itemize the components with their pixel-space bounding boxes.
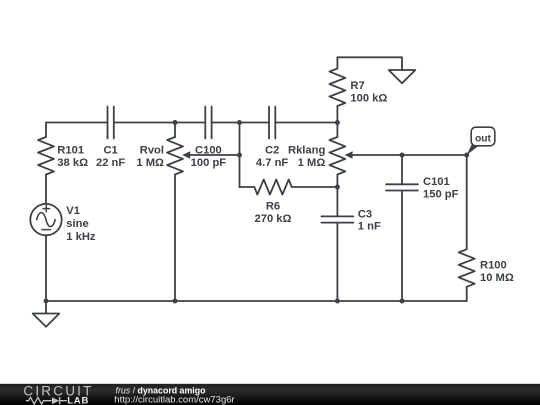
ground bottom left (33, 314, 60, 327)
svg-text:C100: C100 (195, 144, 222, 156)
label C101 value (423, 176, 459, 200)
svg-text:R6: R6 (266, 200, 280, 212)
svg-text:C101: C101 (423, 176, 450, 188)
wire R7 top to ground (337, 57, 402, 70)
wire R7 top lead (336, 57, 338, 68)
wiper arrow Rvol (182, 151, 190, 158)
wire bottom rail (46, 300, 467, 302)
svg-text:38 kΩ: 38 kΩ (57, 157, 88, 169)
svg-text:http://circuitlab.com/cw73g6r: http://circuitlab.com/cw73g6r (114, 395, 234, 405)
wire ground stub bottom left (45, 301, 47, 314)
wire C101 bottom to bottom rail (401, 191, 403, 302)
wire Rklang wiper rail to out (352, 154, 466, 156)
junction Rvol bottom rail (173, 299, 178, 304)
wire Rvol bottom to bottom rail (174, 175, 176, 302)
svg-text:1 kHz: 1 kHz (66, 231, 96, 243)
svg-text:Rvol: Rvol (140, 145, 164, 157)
svg-text:Rklang: Rklang (288, 145, 325, 157)
svg-text:100 kΩ: 100 kΩ (350, 92, 387, 104)
junction C101 top (400, 153, 405, 158)
svg-text:sine: sine (66, 218, 88, 230)
wire V1 to bottom rail (45, 235, 47, 301)
footer bar (0, 384, 540, 405)
junction Rklang top (335, 120, 340, 125)
label V1 value (66, 205, 96, 243)
label R101 value (57, 145, 88, 169)
junction C3 bottom rail (335, 299, 340, 304)
wire C3 bottom to bottom rail (336, 223, 338, 301)
capacitor C3 (321, 216, 353, 222)
svg-text:1 MΩ: 1 MΩ (136, 157, 164, 169)
svg-text:R7: R7 (350, 80, 364, 92)
svg-text:10 MΩ: 10 MΩ (480, 272, 514, 284)
junction C100 right top (237, 120, 242, 125)
junction Rvol top (173, 120, 178, 125)
node out flag (467, 127, 495, 155)
capacitor C101 (386, 184, 418, 190)
svg-text:R100: R100 (480, 260, 507, 272)
source V1 (30, 204, 61, 235)
label Rvol value (136, 145, 164, 169)
potentiometer Rvol (167, 137, 183, 175)
wire Rvol wiper to node (190, 154, 240, 156)
wire out node down to R100 (466, 155, 468, 249)
wire R101 to V1 (45, 175, 47, 205)
svg-text:LAB: LAB (67, 395, 89, 405)
svg-text:150 pF: 150 pF (423, 188, 459, 200)
wire top rail segment 3 (C100 to C2) (212, 122, 269, 124)
junction out node (464, 153, 469, 158)
svg-text:100 pF: 100 pF (191, 157, 227, 169)
label C100 value (191, 144, 227, 169)
potentiometer Rklang (329, 137, 345, 175)
label R6 value (255, 200, 292, 224)
svg-text:C2: C2 (265, 145, 279, 157)
svg-text:R101: R101 (57, 145, 84, 157)
wire C101 top lead (401, 155, 403, 184)
label Rklang value (288, 145, 325, 169)
wire Rklang bottom to C3 (336, 175, 338, 217)
footer logo CIRCUIT LAB (23, 384, 93, 405)
wire vertical C100 right node (239, 123, 241, 188)
wire node to R6 left (240, 186, 255, 188)
label C3 value (358, 208, 381, 232)
wire top rail segment 2 (C1 to C100 via Rvol top) (114, 122, 206, 124)
capacitor C1 (108, 107, 114, 139)
wire left rail top (node A down to R101) (45, 123, 47, 138)
svg-text:out: out (475, 133, 491, 144)
svg-text:1 nF: 1 nF (358, 221, 381, 233)
svg-text:V1: V1 (66, 205, 80, 217)
junction Rklang bottom R6 (335, 185, 340, 190)
footer title text (114, 385, 234, 405)
junction C101 bottom rail (400, 299, 405, 304)
wiper arrow Rklang (345, 151, 353, 158)
wire R6 right to Rklang bottom (292, 186, 338, 188)
svg-text:C1: C1 (103, 145, 117, 157)
junction bottom left (44, 299, 49, 304)
label C2 value (256, 145, 288, 169)
label R100 value (480, 260, 514, 284)
junction wiper node (237, 153, 242, 158)
label R7 value (350, 80, 387, 104)
capacitor C100 (205, 107, 211, 139)
svg-text:4.7 nF: 4.7 nF (256, 157, 288, 169)
svg-text:1 MΩ: 1 MΩ (298, 157, 326, 169)
ground top right (389, 70, 416, 83)
label C1 value (96, 145, 125, 169)
svg-text:C3: C3 (358, 208, 372, 220)
resistor R6 (254, 180, 291, 195)
resistor R7 (329, 69, 345, 107)
svg-text:270 kΩ: 270 kΩ (255, 213, 292, 225)
wire R7 bottom to Rklang top (336, 106, 338, 137)
wire Rvol top lead (174, 123, 176, 138)
wire R100 bottom to bottom rail (466, 287, 468, 301)
resistor R100 (459, 249, 475, 286)
wire top rail segment 1 (node A to C1) (46, 122, 108, 124)
resistor R101 (38, 137, 54, 175)
svg-text:22 nF: 22 nF (96, 157, 125, 169)
capacitor C2 (269, 107, 275, 139)
wire top rail segment 4 (C2 to Rklang top) (275, 122, 337, 124)
